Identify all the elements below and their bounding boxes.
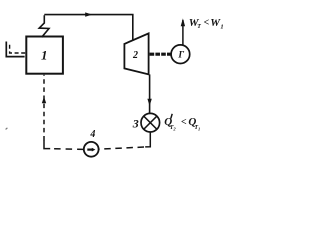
dashed return line bottom right	[99, 147, 144, 149]
prime mark on Q	[171, 114, 172, 119]
wire: turbine exhaust down to condenser	[149, 74, 151, 113]
svg-text:4: 4	[89, 129, 95, 140]
arrow up on feed line	[42, 97, 46, 104]
dashed return line bottom left	[50, 148, 84, 151]
generator circle	[171, 45, 190, 64]
pump flow arrow	[87, 149, 92, 151]
svg-text:1: 1	[41, 47, 48, 62]
svg-text:2: 2	[132, 50, 138, 61]
heat input dashed arrow line	[10, 45, 26, 53]
wire: condenser drain to corner (solid)	[145, 132, 150, 147]
svg-text:WT<W1: WT<W1	[189, 17, 224, 31]
arrow on top steam line	[85, 12, 92, 16]
corner bottom left (solid)	[44, 140, 50, 148]
dashed feed line up to boiler	[43, 75, 45, 141]
wire: generator output riser	[182, 20, 184, 45]
speck artifact left margin	[6, 128, 8, 130]
arrow down on exhaust	[147, 99, 151, 106]
zigzag break symbol on boiler outlet	[39, 15, 49, 37]
pump 4	[84, 142, 99, 157]
arrow up on generator output	[181, 18, 185, 26]
heat input hook (solid pipe stub)	[6, 42, 24, 57]
condenser 3 (circle with X)	[141, 113, 160, 132]
svg-text:Г: Г	[177, 51, 184, 61]
boiler box 1	[26, 37, 63, 74]
wire: boiler to turbine (top steam line)	[44, 15, 133, 41]
shaft turbine to generator	[150, 53, 171, 56]
svg-text:3: 3	[132, 117, 139, 131]
turbine 2	[124, 33, 148, 74]
